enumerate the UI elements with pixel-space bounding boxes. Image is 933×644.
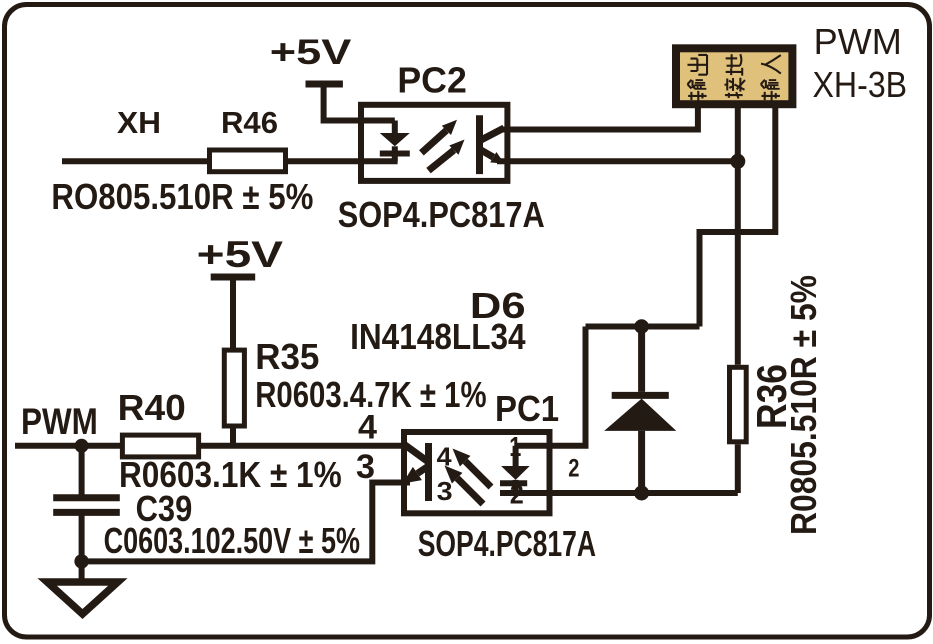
svg-text:R46: R46 (221, 105, 278, 140)
wire R40 to PC1 (199, 443, 406, 449)
wire ground rail to PC1 pin3 (82, 483, 410, 562)
op-to PC1 body (404, 432, 550, 513)
connector pin label ground (724, 54, 744, 98)
svg-text:R40: R40 (118, 387, 186, 428)
wire +5V to PC2 LED anode (324, 84, 395, 121)
svg-text:XH-3B: XH-3B (813, 64, 908, 105)
svg-text:4: 4 (358, 408, 377, 446)
svg-text:+5V: +5V (270, 33, 352, 72)
svg-text:IN4148LL34: IN4148LL34 (350, 316, 525, 357)
capacitor C39 (53, 446, 120, 562)
wire XH input (62, 158, 209, 164)
svg-text:3: 3 (437, 476, 453, 506)
wire D6 top net (586, 324, 700, 330)
wire bottom rail (516, 490, 738, 496)
svg-text:R0805.510R ± 5%: R0805.510R ± 5% (783, 275, 824, 535)
svg-text:C0603.102.50V ± 5%: C0603.102.50V ± 5% (104, 520, 360, 561)
wire PC2 collector to connector pin1 (502, 108, 698, 130)
op-to PC2 body (361, 105, 507, 181)
svg-text:XH: XH (117, 105, 161, 140)
wire R35 to rail (230, 426, 236, 446)
junction (730, 154, 745, 169)
wire connector pin2 to R36 (735, 108, 741, 365)
PC1 light arrows (445, 449, 492, 505)
svg-text:PWM: PWM (21, 401, 98, 442)
resistor R46 (210, 150, 286, 172)
connector XH-3B (676, 48, 792, 104)
resistor R36 (730, 367, 747, 493)
PC2 internal LED (380, 121, 410, 162)
diode D6 (604, 327, 676, 494)
resistor R40 (122, 435, 198, 457)
ground (47, 561, 118, 614)
svg-text:SOP4.PC817A: SOP4.PC817A (418, 523, 596, 564)
PC2 phototransistor (480, 115, 505, 174)
svg-text:3: 3 (356, 448, 375, 486)
junction (75, 439, 89, 453)
wire PC1 pin1 to D6 net (516, 327, 586, 446)
connector pin label output (687, 55, 707, 101)
svg-text:R35: R35 (255, 336, 319, 377)
power +5V (middle) (197, 234, 284, 277)
wire R46 to PC2 (286, 158, 398, 164)
junction (634, 486, 649, 501)
connector pin label input (761, 55, 781, 100)
svg-text:+5V: +5V (197, 234, 284, 275)
PC1 phototransistor (403, 443, 429, 501)
svg-text:PC2: PC2 (397, 60, 466, 101)
resistor R35 (224, 350, 244, 426)
svg-text:RO805.510R ± 5%: RO805.510R ± 5% (51, 176, 313, 217)
junction (74, 554, 88, 568)
svg-text:SOP4.PC817A: SOP4.PC817A (338, 194, 545, 235)
svg-text:4: 4 (437, 442, 453, 472)
junction (634, 319, 649, 334)
power +5V (top) (270, 33, 352, 84)
svg-text:2: 2 (568, 455, 579, 483)
PC2 light arrows (421, 120, 464, 171)
wire PWM rail (15, 443, 122, 449)
svg-text:PWM: PWM (814, 21, 902, 62)
PC1 internal LED (500, 446, 530, 493)
wire connector pin3 to D6 net (700, 108, 776, 327)
wire PC1 pin2 exit (500, 490, 562, 496)
wire PC2 emitter to node (497, 158, 738, 164)
wire +5V to R35 (230, 277, 236, 350)
svg-text:PC1: PC1 (495, 388, 559, 429)
